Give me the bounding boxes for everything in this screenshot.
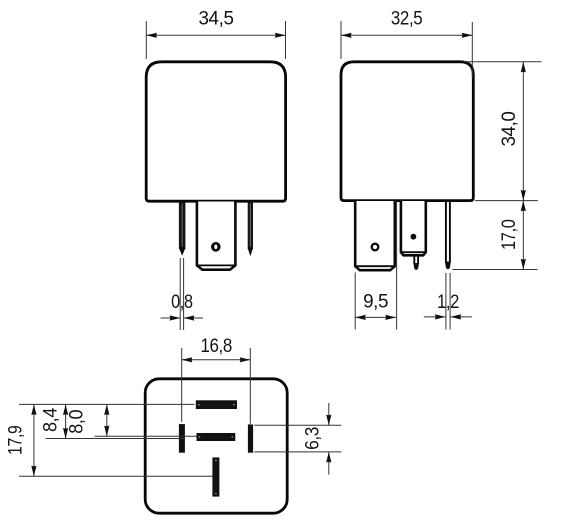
- front blade hole: [211, 242, 221, 252]
- dimension 8,0 extension line: [95, 435, 197, 437]
- dimension 34,5 line and arrows: [146, 33, 285, 38]
- bottom view bottom blade pin: [212, 457, 219, 496]
- dimension 16,8 extension lines: [182, 348, 251, 424]
- front view right thin pin: [248, 202, 253, 256]
- front view left thin pin: [179, 202, 186, 256]
- dimension 32,5 extension lines: [341, 21, 472, 78]
- dimension 9,5 line and arrows: [355, 315, 396, 320]
- front view body: [146, 62, 285, 201]
- bottom view top blade pin: [196, 400, 237, 409]
- bottom view middle blade pin: [197, 433, 236, 441]
- dimension 17,9 extension line bottom: [19, 475, 213, 477]
- svg-text:34,5: 34,5: [199, 8, 234, 29]
- dimension 16,8 line and arrows: [182, 357, 251, 362]
- svg-text:34,0: 34,0: [499, 112, 520, 147]
- bottom view body: [145, 379, 287, 513]
- svg-text:6,3: 6,3: [302, 427, 323, 450]
- svg-text:0,8: 0,8: [171, 292, 193, 313]
- dimension 9,5 extension lines: [355, 202, 396, 330]
- side view body: [341, 62, 473, 201]
- svg-text:16,8: 16,8: [200, 336, 232, 357]
- side middle blade dot: [411, 234, 417, 240]
- svg-text:1,2: 1,2: [437, 292, 459, 313]
- dimension 17,0 extension line bottom: [453, 269, 538, 271]
- front view center blade pin: [197, 202, 236, 270]
- dimension 1,2 line and arrows: [424, 314, 472, 319]
- dimension 17,9 line and arrows: [31, 404, 36, 476]
- shared extension line at body bottom: [475, 200, 538, 202]
- side middle blade thin tip pin: [413, 256, 419, 270]
- dimension 34,5 extension lines: [146, 21, 285, 59]
- dimension 8,4 extension line: [46, 438, 185, 440]
- bottom view right blade pin: [248, 424, 253, 452]
- side wide blade hole: [372, 244, 379, 251]
- svg-text:8,0: 8,0: [67, 410, 88, 434]
- datum extension line (top blade center): [19, 403, 195, 405]
- svg-text:32,5: 32,5: [391, 8, 423, 29]
- svg-text:17,9: 17,9: [6, 425, 27, 455]
- svg-text:9,5: 9,5: [363, 291, 388, 312]
- svg-text:17,0: 17,0: [499, 219, 520, 250]
- side view right thin pin 1,2: [445, 202, 451, 270]
- side view middle blade pin: [401, 201, 426, 255]
- dimension 6,3 line and arrows: [326, 403, 331, 475]
- dimension 17,0 line and arrows: [521, 201, 526, 270]
- side view wide blade pin: [355, 201, 395, 270]
- dimension 32,5 line and arrows: [341, 33, 472, 38]
- dimension 1,2 extension lines: [446, 273, 450, 330]
- dimension 0,8 line and arrows: [161, 315, 204, 320]
- bottom view left blade pin: [179, 424, 185, 453]
- dimension 8,0 line and arrows: [104, 404, 109, 436]
- svg-text:8,4: 8,4: [40, 407, 61, 432]
- dimension 0,8 extension lines: [180, 258, 183, 330]
- dimension 6,3 extension lines: [254, 425, 341, 452]
- dimension 34,0 line and arrows: [521, 62, 526, 201]
- dimension 34,0 extension line top: [464, 61, 542, 63]
- dimension 8,4 line and arrows: [63, 404, 68, 438]
